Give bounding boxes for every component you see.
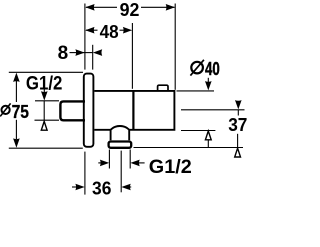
wall flange (Ø75 plate, side view) (84, 74, 94, 147)
ext line body right x=175.2 (174, 4, 176, 90)
outlet thread ext line right (129, 150, 131, 169)
outlet axis centre line (120, 151, 122, 193)
bottom G1/2 dim tail right (136, 162, 145, 164)
8 right (points left) (93, 49, 102, 56)
inlet pipe G1/2 (left of flange) (60, 101, 85, 120)
36 dim tail left (72, 186, 79, 188)
arrowheads: solid (13, 4, 242, 190)
92 left (85, 4, 94, 11)
8 left (points right) (75, 49, 84, 56)
G1/2 pointer shaft (43, 90, 45, 96)
dim line 92 left segment (86, 6, 117, 8)
Ø75 ext line bottom (9, 147, 83, 149)
Ø40 ext top (body top extended) (177, 90, 215, 92)
Ø75 ext line top (9, 71, 83, 73)
ext line wall plane bottom (84, 152, 86, 195)
dim line 48 right segment (120, 29, 125, 31)
36 left head (points right) (75, 184, 84, 191)
48 right (123, 27, 132, 34)
pipe dim shaft (43, 101, 45, 120)
Ø40 shaft bottom (207, 140, 209, 148)
svg-text:48: 48 (100, 22, 119, 42)
ext line wall plane x=84.9 (top) (84, 4, 86, 70)
Ø symbol of Ø75 (0, 103, 10, 116)
Ø40 shaft top (207, 78, 209, 83)
dim line 92 right segment (141, 6, 175, 8)
svg-text:75: 75 (12, 102, 29, 122)
svg-text:37: 37 (228, 115, 247, 135)
svg-text:G1/2: G1/2 (26, 72, 63, 94)
svg-text:40: 40 (205, 59, 220, 79)
outlet neck + intersection curve (111, 126, 130, 140)
Ø symbol of Ø40 (190, 60, 204, 76)
svg-text:G1/2: G1/2 (149, 156, 192, 178)
body internal joint line (132, 91, 134, 130)
dim line 8 left segment (70, 52, 85, 54)
outlet ring (hose nut) (109, 142, 132, 148)
body Ø40 outline (94, 91, 174, 130)
set screw bump on body top (158, 85, 168, 90)
Ø75 dim shaft lower (15, 120, 17, 139)
svg-text:36: 36 (92, 179, 111, 199)
36 right head (points left) (121, 184, 130, 191)
Ø40 bottom head (up) (205, 131, 211, 140)
bottom G1/2 dim tail left (98, 162, 104, 164)
bottom G1/2 left head (points right) (100, 160, 109, 167)
pipe G1/2 ext line bottom (35, 119, 60, 121)
arrowheads: open (41, 121, 240, 157)
37 bottom head (up) (235, 148, 241, 157)
Ø75 top head (up) (13, 73, 20, 82)
pipe G1/2 ext line top (35, 100, 59, 102)
36 dim tail right (123, 186, 131, 188)
outlet thread ext line left (108, 150, 110, 169)
G1/2 pointer head (down) (41, 91, 48, 100)
dim line 8 middle segment (85, 52, 92, 54)
37 top head (down, solid) (235, 100, 242, 109)
pipe dim bottom head (up) (41, 121, 47, 130)
axis ext line y=108.3 (181, 109, 245, 111)
ring bottom ext line y=147.5 (134, 147, 244, 149)
Ø40 top head (down) (205, 81, 212, 90)
ext line flange front x=92.7 (92, 45, 94, 70)
bottom G1/2 right head (points left) (130, 160, 139, 167)
Ø75 dim shaft upper (15, 81, 17, 103)
92 right (166, 4, 175, 11)
Ø75 bottom head (down) (13, 138, 20, 147)
Ø40 ext bottom (181, 130, 215, 132)
dim line 48 left segment (86, 29, 98, 31)
ext line 48 right x=130.4 (131, 23, 133, 89)
svg-text:92: 92 (120, 0, 140, 20)
37 shaft stub below axis line (237, 110, 239, 116)
svg-text:8: 8 (58, 43, 69, 64)
48 left (85, 27, 94, 34)
37 shaft below text (237, 134, 239, 148)
